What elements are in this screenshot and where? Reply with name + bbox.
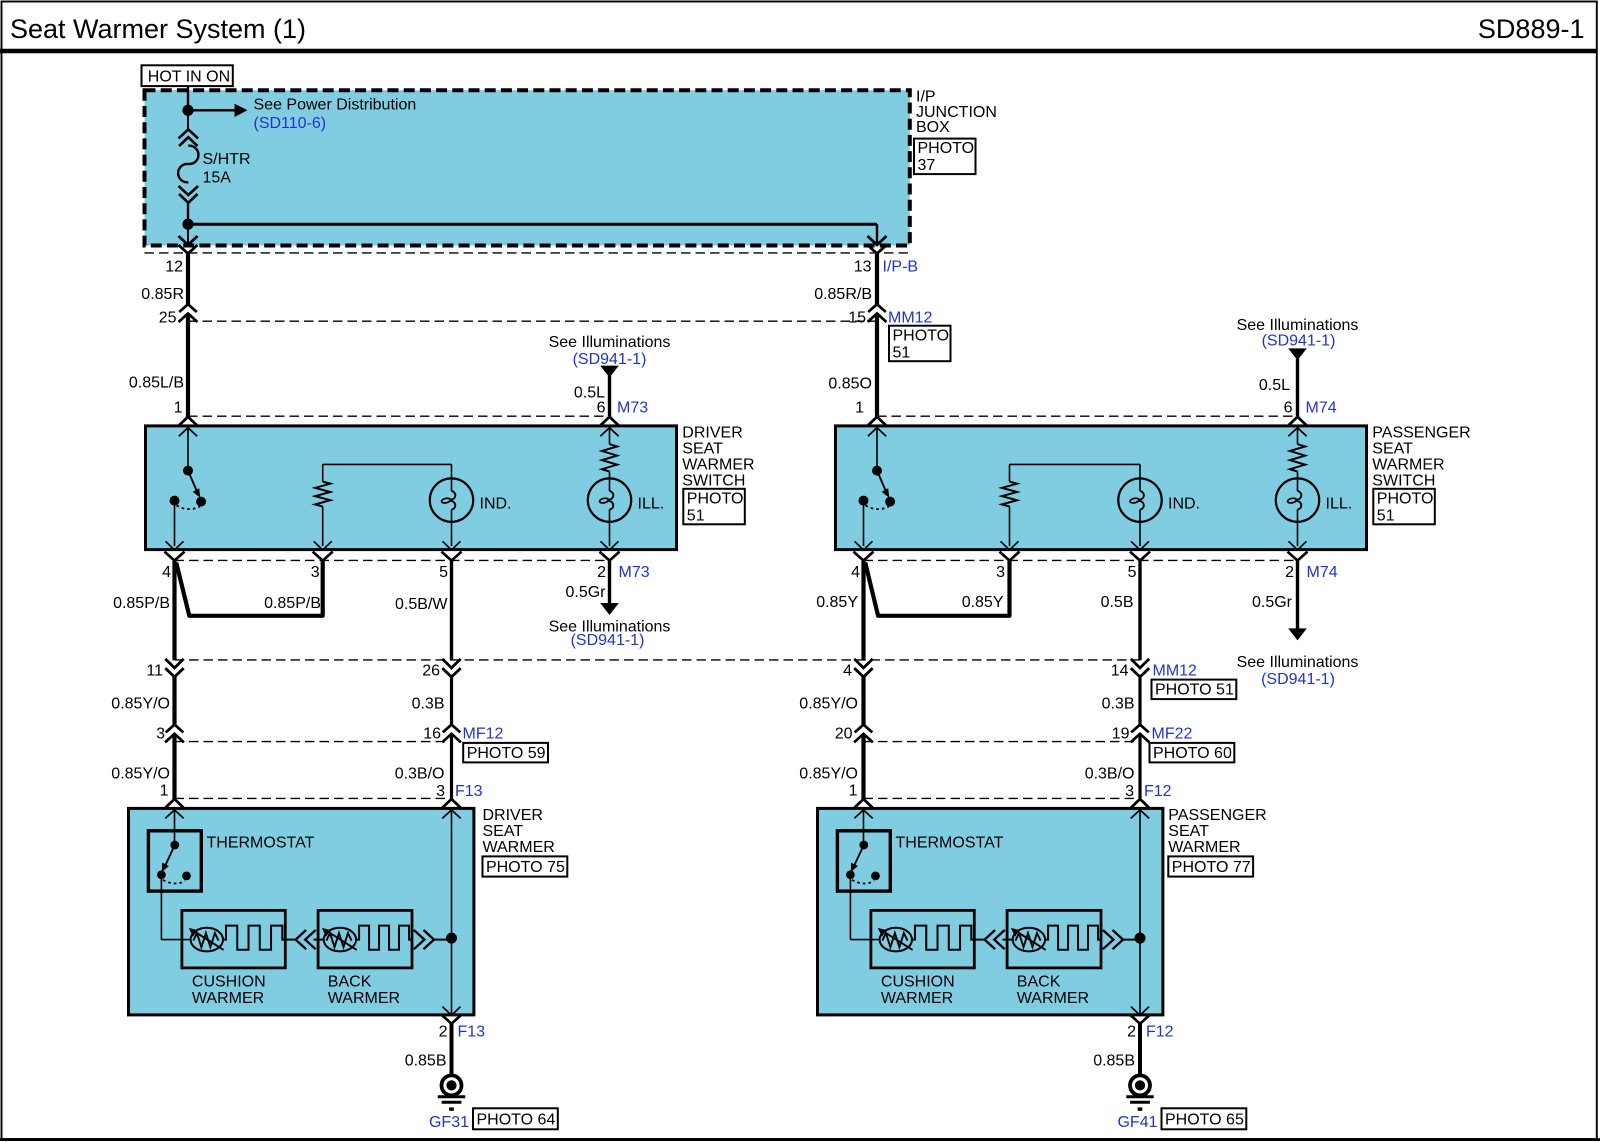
wire 0.85Y/O driver upper (172, 677, 176, 725)
svg-text:0.85R: 0.85R (141, 286, 184, 303)
wire IND lamp to pin 5 driver (451, 522, 453, 546)
svg-text:PHOTO: PHOTO (893, 327, 950, 344)
svg-text:0.85O: 0.85O (828, 376, 872, 393)
connector dashed line row 11-26-4-14 (175, 659, 1141, 661)
svg-text:3: 3 (996, 564, 1005, 581)
svg-text:THERMOSTAT: THERMOSTAT (896, 835, 1004, 852)
svg-text:0.85Y/O: 0.85Y/O (799, 765, 858, 782)
cushion warmer box driver (182, 910, 285, 968)
svg-text:WARMER: WARMER (881, 990, 953, 1007)
svg-text:PHOTO 64: PHOTO 64 (477, 1112, 556, 1129)
fuse S/HTR 15A element (178, 146, 198, 183)
svg-text:1: 1 (849, 782, 858, 799)
wire 0.3B/O driver (450, 734, 453, 799)
photo box GF31 PHOTO 64 (473, 1108, 558, 1129)
driver seat warmer switch box (146, 426, 677, 550)
svg-text:PHOTO 77: PHOTO 77 (1172, 859, 1251, 876)
cushion warmer element passenger (912, 926, 974, 950)
resistor driver ILL branch (609, 429, 611, 444)
svg-text:PHOTO: PHOTO (1377, 490, 1434, 507)
svg-text:6: 6 (1284, 400, 1293, 417)
svg-text:DRIVER: DRIVER (483, 807, 543, 824)
svg-text:0.3B/O: 0.3B/O (1085, 765, 1135, 782)
svg-text:0.5B: 0.5B (1101, 594, 1134, 611)
svg-text:MM12: MM12 (1153, 662, 1198, 679)
wire 0.5Gr passenger stub (1296, 561, 1299, 629)
wire pin5 driver down (0.5B/W) (450, 561, 453, 660)
wire 0.3B driver (450, 677, 453, 725)
illumination feed arrow passenger (1288, 348, 1307, 360)
svg-text:F12: F12 (1146, 1024, 1174, 1041)
wire jog pin3 to pin4 driver (0.85P/B) (176, 560, 323, 616)
svg-text:PHOTO 65: PHOTO 65 (1165, 1112, 1244, 1129)
svg-text:M74: M74 (1306, 400, 1337, 417)
wire 0.5Gr driver stub (608, 561, 611, 604)
svg-text:3: 3 (311, 564, 320, 581)
driver warmer entry chevrons pin 3 (443, 799, 461, 808)
svg-text:14: 14 (1111, 662, 1129, 679)
link wire resistor to IND lamp passenger (1010, 463, 1141, 465)
connector chevrons 15 (868, 304, 886, 312)
svg-text:51: 51 (1377, 507, 1395, 524)
svg-text:See Illuminations: See Illuminations (549, 334, 671, 351)
photo box driver warmer PHOTO 75 (483, 856, 568, 876)
resistor passenger ILL branch (1297, 429, 1299, 444)
svg-text:BOX: BOX (916, 119, 950, 136)
back warmer box driver (318, 910, 412, 968)
svg-text:37: 37 (918, 157, 936, 174)
svg-text:PHOTO 75: PHOTO 75 (486, 859, 565, 876)
passenger switch exit chevrons pin 5 (1131, 541, 1149, 550)
wire back warmer to node passenger (1123, 939, 1137, 941)
passenger warmer entry chevrons pin 3 (1131, 799, 1149, 808)
svg-text:5: 5 (1128, 564, 1137, 581)
svg-text:PHOTO 59: PHOTO 59 (467, 745, 546, 762)
svg-text:3: 3 (156, 725, 165, 742)
svg-text:51: 51 (687, 507, 705, 524)
svg-text:MF12: MF12 (463, 725, 504, 742)
lamp ILL driver (588, 478, 631, 521)
connector chevrons 3 (MF12) (166, 725, 184, 733)
inline chevrons right (back-out) passenger (1103, 930, 1114, 949)
bus corner down to pin 13 (876, 224, 878, 243)
svg-text:0.85P/B: 0.85P/B (264, 595, 321, 612)
HOT IN ON tag box (142, 65, 233, 86)
svg-text:WARMER: WARMER (1168, 839, 1240, 856)
wire fuse to lower node (187, 203, 189, 224)
connector chevrons 25 (179, 304, 197, 312)
connector dashed line above driver switch (188, 415, 610, 417)
resistor passenger switch pin 3 (1009, 464, 1011, 481)
wire stub into back warmer driver (314, 939, 324, 941)
junction node passenger warmer (1135, 933, 1146, 944)
wire 0.3B passenger (1138, 677, 1141, 725)
bus wire across junction box (188, 223, 877, 226)
connector dashed line MF22 row (864, 741, 1141, 743)
resistor driver switch pin 3 (322, 464, 324, 481)
photo box passenger warmer PHOTO 77 (1168, 856, 1253, 876)
svg-text:PASSENGER: PASSENGER (1168, 807, 1266, 824)
driver switch exit chevrons pin 5 (443, 541, 461, 550)
connector chevrons 20 (MF22) (855, 725, 873, 733)
wire 0.85B passenger (1138, 1024, 1142, 1076)
svg-text:Seat Warmer System (1): Seat Warmer System (1) (10, 14, 306, 44)
wire 0.85R/B segment (875, 254, 879, 305)
svg-text:M73: M73 (619, 564, 650, 581)
svg-text:HOT IN ON: HOT IN ON (148, 69, 230, 86)
svg-text:4: 4 (843, 662, 852, 679)
svg-text:PHOTO 60: PHOTO 60 (1153, 745, 1232, 762)
svg-text:0.3B: 0.3B (1102, 695, 1135, 712)
svg-text:0.5L: 0.5L (1259, 377, 1290, 394)
switch symbol passenger (pin1 to pin4) (876, 429, 878, 466)
cushion warmer element driver (223, 926, 285, 950)
svg-text:2: 2 (597, 564, 606, 581)
svg-text:1: 1 (174, 400, 183, 417)
wire thermostat to cushion warmer passenger (850, 939, 879, 941)
wire ILL lamp to pin 2 driver (609, 522, 611, 546)
fuse S/HTR 15A top chevrons (179, 129, 199, 138)
connector chevrons 16 (MF12) (443, 725, 461, 733)
thermostat passenger (837, 831, 890, 891)
driver switch entry chevrons pin 1 (179, 417, 197, 426)
thermostat driver (148, 831, 201, 891)
svg-text:(SD110-6): (SD110-6) (254, 115, 327, 132)
passenger switch entry chevrons pin 1 (868, 417, 886, 426)
wire thermostat to cushion warmer driver (161, 939, 190, 941)
driver switch entry chevrons pin 6 (601, 417, 619, 426)
junction node A (power feed dot) (182, 105, 193, 116)
cushion warmer heater driver (191, 928, 223, 952)
bottom border line (0, 1138, 1600, 1141)
photo box MF22 PHOTO 60 (1150, 743, 1235, 763)
svg-text:F13: F13 (458, 1024, 486, 1041)
svg-text:3: 3 (1125, 783, 1134, 800)
svg-text:(SD941-1): (SD941-1) (1261, 671, 1335, 688)
svg-text:(SD941-1): (SD941-1) (1262, 333, 1336, 350)
wire 0.85Y/O passenger lower (861, 734, 865, 799)
inline chevrons right (back-out) driver (414, 930, 425, 949)
title separator thick line (0, 49, 1597, 53)
svg-text:0.85P/B: 0.85P/B (113, 595, 170, 612)
link wire resistor to IND lamp driver (323, 463, 452, 465)
connector dashed line F13 row (175, 797, 452, 799)
svg-text:WARMER: WARMER (1017, 990, 1089, 1007)
wire 0.5L driver (608, 376, 611, 417)
svg-text:BACK: BACK (1017, 974, 1061, 991)
wire 0.85Y/O driver lower (172, 734, 176, 799)
wire stub into back warmer passenger (1003, 939, 1013, 941)
connector dashed line F12 row (864, 797, 1141, 799)
svg-text:See Power Distribution: See Power Distribution (254, 97, 417, 114)
junction node B (fused feed dot) (182, 219, 193, 230)
connector chevrons 4 (854, 659, 872, 668)
wire pin3 to pin2 through driver warmer (451, 810, 453, 1016)
connector chevrons 26 (442, 659, 460, 668)
svg-text:0.85Y: 0.85Y (962, 594, 1004, 611)
connector dashed line MM12 row (188, 320, 877, 322)
driver switch exit chevrons pin 4 (166, 541, 184, 550)
svg-text:5: 5 (439, 564, 448, 581)
wire 0.5L passenger (1296, 359, 1299, 417)
passenger switch exit chevrons pin 2 (1289, 541, 1307, 550)
svg-text:2: 2 (1285, 564, 1294, 581)
svg-text:SEAT: SEAT (682, 441, 723, 458)
svg-text:THERMOSTAT: THERMOSTAT (207, 835, 315, 852)
svg-text:19: 19 (1112, 725, 1130, 742)
passenger switch exit chevrons pin 3 (1001, 541, 1019, 550)
svg-text:WARMER: WARMER (192, 990, 264, 1007)
svg-text:F12: F12 (1144, 783, 1172, 800)
connector chevrons 11 (165, 659, 183, 668)
svg-text:MF22: MF22 (1152, 725, 1193, 742)
driver switch exit chevrons pin 2 (601, 541, 619, 550)
junction node driver warmer (446, 933, 457, 944)
driver seat warmer box (129, 808, 474, 1015)
branch wire to See Power Distribution (188, 109, 235, 111)
back warmer element driver (356, 926, 412, 950)
svg-text:SEAT: SEAT (1168, 823, 1209, 840)
svg-text:WARMER: WARMER (483, 839, 555, 856)
photo box MF12 PHOTO 59 (463, 743, 548, 763)
svg-text:IND.: IND. (480, 496, 512, 513)
svg-text:0.85R/B: 0.85R/B (814, 286, 872, 303)
svg-text:1: 1 (160, 782, 169, 799)
I/P junction box (dashed cyan block) (145, 90, 910, 245)
svg-text:0.5Gr: 0.5Gr (565, 584, 606, 601)
svg-text:I/P-B: I/P-B (883, 259, 919, 276)
photo box passenger switch PHOTO 51 (1373, 489, 1435, 525)
svg-text:ILL.: ILL. (1326, 496, 1353, 513)
lamp ILL passenger (1276, 478, 1319, 521)
svg-text:0.3B: 0.3B (412, 695, 445, 712)
svg-text:SWITCH: SWITCH (1372, 473, 1435, 490)
wire 0.85Y/O passenger upper (861, 677, 865, 725)
svg-text:16: 16 (423, 725, 441, 742)
svg-text:11: 11 (146, 662, 163, 679)
svg-text:PHOTO: PHOTO (918, 140, 975, 157)
connector chevrons 19 (MF22) (1131, 725, 1149, 733)
svg-text:ILL.: ILL. (638, 496, 665, 513)
inline chevrons left (cushion-back) driver (296, 930, 307, 949)
svg-text:PHOTO 51: PHOTO 51 (1155, 682, 1234, 699)
svg-text:0.85L/B: 0.85L/B (129, 374, 184, 391)
lamp IND passenger (1118, 478, 1161, 521)
passenger seat warmer box (818, 808, 1163, 1015)
wire pin4 passenger down (0.85Y) (861, 561, 865, 660)
back warmer heater passenger (1013, 928, 1045, 952)
svg-text:6: 6 (597, 400, 606, 417)
back warmer element passenger (1045, 926, 1101, 950)
arrowhead See Power Distribution (235, 104, 248, 117)
svg-text:WARMER: WARMER (1372, 457, 1444, 474)
svg-text:0.3B/O: 0.3B/O (395, 765, 445, 782)
svg-text:4: 4 (851, 564, 860, 581)
svg-text:M74: M74 (1307, 564, 1338, 581)
connector dashed line below junction box (145, 252, 910, 254)
svg-text:3: 3 (436, 783, 445, 800)
illumination feed arrow driver (600, 366, 619, 378)
passenger switch exit chevrons pin 4 (855, 541, 873, 550)
svg-text:26: 26 (422, 662, 440, 679)
svg-text:0.85B: 0.85B (405, 1053, 447, 1070)
svg-text:See Illuminations: See Illuminations (1237, 317, 1359, 334)
connector dashed line MF12 row (175, 741, 452, 743)
wire 0.85O segment (875, 314, 879, 418)
svg-text:GF31: GF31 (429, 1114, 469, 1131)
svg-text:IND.: IND. (1168, 496, 1200, 513)
svg-text:See Illuminations: See Illuminations (1237, 654, 1359, 671)
svg-text:PHOTO: PHOTO (687, 490, 744, 507)
svg-text:F13: F13 (455, 783, 483, 800)
photo box GF41 PHOTO 65 (1162, 1108, 1247, 1129)
svg-text:(SD941-1): (SD941-1) (571, 632, 645, 649)
connector chevrons 14 (1131, 659, 1149, 668)
wire IND lamp to pin 5 passenger (1139, 522, 1141, 546)
connector dashed line below passenger switch (864, 559, 1298, 561)
svg-text:CUSHION: CUSHION (192, 974, 266, 991)
svg-text:SEAT: SEAT (483, 823, 524, 840)
svg-text:M73: M73 (617, 400, 648, 417)
svg-text:4: 4 (162, 564, 171, 581)
photo box driver switch PHOTO 51 (683, 489, 745, 525)
back warmer heater driver (324, 928, 356, 952)
svg-text:SWITCH: SWITCH (682, 473, 745, 490)
svg-text:1: 1 (855, 400, 864, 417)
photo box MM12 row2 PHOTO 51 (1152, 680, 1237, 700)
svg-text:0.5B/W: 0.5B/W (395, 596, 448, 613)
illumination out arrow passenger (1288, 628, 1307, 640)
driver switch exit chevrons pin 3 (314, 541, 332, 550)
svg-text:12: 12 (165, 259, 183, 276)
passenger warmer exit chevrons pin 2 (1131, 1007, 1149, 1016)
ground GF41 (1130, 1075, 1150, 1095)
svg-text:15A: 15A (203, 170, 232, 187)
svg-text:2: 2 (1127, 1024, 1136, 1041)
wire from HOT IN ON into junction box (187, 86, 189, 110)
svg-text:0.85B: 0.85B (1093, 1053, 1135, 1070)
wire pin5 passenger down (0.5B) (1138, 561, 1141, 660)
passenger seat warmer switch box (836, 426, 1367, 550)
wire node B down to pin 12 (187, 224, 189, 243)
wire node A to fuse (187, 110, 189, 130)
wire 0.85R segment (186, 254, 190, 305)
driver warmer entry chevrons pin 1 (166, 799, 184, 808)
svg-text:0.85Y/O: 0.85Y/O (799, 695, 858, 712)
svg-text:SEAT: SEAT (1372, 441, 1413, 458)
svg-text:13: 13 (854, 259, 872, 276)
svg-text:(SD941-1): (SD941-1) (573, 351, 647, 368)
passenger switch entry chevrons pin 6 (1289, 417, 1307, 426)
illumination out arrow driver (600, 603, 619, 615)
svg-text:DRIVER: DRIVER (682, 425, 742, 442)
back warmer box passenger (1007, 910, 1101, 968)
svg-text:0.85Y/O: 0.85Y/O (111, 695, 170, 712)
ground GF31 (442, 1075, 462, 1095)
wire pin4 driver down (0.85P/B to 0.85Y/O) (172, 561, 176, 660)
svg-text:0.85Y: 0.85Y (816, 594, 858, 611)
svg-text:MM12: MM12 (888, 309, 933, 326)
wire 0.85L/B segment (186, 314, 190, 418)
svg-text:BACK: BACK (328, 974, 372, 991)
svg-text:20: 20 (835, 725, 853, 742)
driver warmer exit chevrons pin 2 (443, 1007, 461, 1016)
svg-text:2: 2 (439, 1024, 448, 1041)
svg-text:WARMER: WARMER (328, 990, 400, 1007)
wire pin3 to pin2 through passenger warmer (1139, 810, 1141, 1016)
connector dashed line below driver switch (175, 559, 610, 561)
connector dashed line above passenger switch (877, 415, 1298, 417)
svg-text:S/HTR: S/HTR (203, 151, 251, 168)
junction box exit chevrons pin 13 (868, 236, 887, 245)
wire back warmer to node driver (434, 939, 448, 941)
svg-text:WARMER: WARMER (682, 457, 754, 474)
svg-text:SD889-1: SD889-1 (1478, 14, 1585, 44)
inline chevrons left (cushion-back) passenger (985, 930, 996, 949)
wire 0.3B/O passenger (1138, 734, 1141, 799)
svg-text:0.85Y/O: 0.85Y/O (111, 765, 170, 782)
svg-text:25: 25 (159, 309, 177, 326)
svg-text:GF41: GF41 (1117, 1114, 1157, 1131)
wire cushion to back warmer stub driver (285, 939, 295, 941)
wire 0.85B driver (450, 1024, 454, 1076)
cushion warmer heater passenger (880, 928, 912, 952)
passenger warmer entry chevrons pin 1 (855, 799, 873, 808)
lamp IND driver (430, 478, 473, 521)
wire ILL lamp to pin 2 passenger (1297, 522, 1299, 546)
photo box junction PHOTO 37 (914, 139, 976, 175)
svg-text:PASSENGER: PASSENGER (1372, 425, 1470, 442)
fuse bottom chevrons (179, 186, 199, 195)
junction box exit chevrons pin 12 (179, 236, 198, 245)
wire cushion to back warmer stub passenger (974, 939, 984, 941)
svg-text:51: 51 (893, 344, 911, 361)
svg-text:15: 15 (848, 309, 866, 326)
svg-text:CUSHION: CUSHION (881, 974, 955, 991)
wire jog pin3 to pin4 passenger (0.85Y) (865, 560, 1009, 616)
switch symbol driver (pin1 to pin4) (187, 429, 189, 466)
photo box MM12 PHOTO 51 (889, 326, 951, 362)
svg-text:0.5Gr: 0.5Gr (1252, 594, 1293, 611)
cushion warmer box passenger (871, 910, 974, 968)
